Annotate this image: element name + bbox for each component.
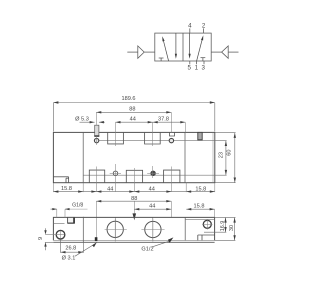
port 4 stub <box>189 28 191 33</box>
left mounting foot <box>53 177 68 183</box>
extension right edge down <box>214 183 216 192</box>
bottom right step <box>198 235 215 240</box>
dim G1/8 left <box>51 208 57 210</box>
svg-text:30: 30 <box>229 225 235 231</box>
right pilot to box wire <box>211 51 221 53</box>
svg-text:16.9: 16.9 <box>220 221 226 232</box>
centerline port1 x134.3 <box>133 168 135 192</box>
dia 3.1 hole (sectioned dark) <box>95 237 98 241</box>
right square: blocked port 3 T symbol <box>201 58 206 61</box>
chain arrowheads <box>53 190 58 192</box>
svg-text:60: 60 <box>227 149 233 155</box>
label dia 3.1 with leader <box>75 244 96 257</box>
valve box outline <box>155 33 211 61</box>
dim 37.8 <box>153 121 186 123</box>
dim 30 <box>215 218 236 241</box>
mounting hole slot (sectioned) <box>95 125 99 136</box>
svg-text:G1/8: G1/8 <box>72 203 83 209</box>
svg-text:37.8: 37.8 <box>158 117 169 123</box>
15.8 right extension <box>214 209 216 217</box>
dim 44 bottom view <box>134 208 171 210</box>
port 3 stub <box>203 61 205 64</box>
bottom port boss 1 <box>89 170 104 183</box>
svg-text:15.8: 15.8 <box>61 186 72 192</box>
port 5 stub <box>189 61 191 64</box>
port 2 stub <box>203 28 205 33</box>
svg-text:Ø 3.1: Ø 3.1 <box>62 256 76 262</box>
left square: blocked port 5 T symbol <box>159 58 164 61</box>
left pilot triangle <box>138 46 144 58</box>
extension left edge down <box>52 183 54 192</box>
face screw cross left <box>110 172 121 174</box>
svg-text:Ø 5.3: Ø 5.3 <box>75 117 89 123</box>
bottom dim chain of front view <box>53 191 214 193</box>
internal bottom plate line <box>83 174 215 176</box>
svg-text:26.8: 26.8 <box>65 246 76 252</box>
extension left cap down <box>82 183 84 192</box>
dim 44 top <box>116 121 153 123</box>
bottom port boss 2 <box>126 170 142 182</box>
G1/8 notch dark side <box>73 218 75 224</box>
centerline port3 x171.4 <box>170 113 172 133</box>
outline <box>53 217 214 240</box>
left pilot to box wire <box>144 51 155 53</box>
G1/8 pilot port notch <box>68 217 75 223</box>
label G1/2 with leader <box>152 241 170 247</box>
left foot hole circle <box>56 230 65 239</box>
svg-text:88: 88 <box>131 196 137 202</box>
dim 23 <box>215 141 227 176</box>
internal line left section <box>53 222 64 224</box>
port 1 stub <box>195 61 197 64</box>
left square: flow arrow 2-3 vertical down <box>175 33 177 54</box>
right top hole notch <box>170 132 175 136</box>
face screw circle right (filled) <box>151 171 156 176</box>
svg-text:4: 4 <box>188 23 192 30</box>
dim 9 (foot plate) <box>45 228 54 250</box>
left cap line bottom view <box>82 217 84 243</box>
left square: flow arrow 1-4 diagonal <box>163 39 169 61</box>
svg-text:44: 44 <box>149 186 155 192</box>
svg-text:44: 44 <box>107 186 113 192</box>
svg-text:9: 9 <box>38 237 44 240</box>
left pilot line <box>127 51 138 53</box>
left foot hole cross <box>45 234 64 236</box>
svg-text:23: 23 <box>218 152 224 158</box>
port1 marker arrow on bottom view top edge <box>133 213 137 220</box>
face screw cross right <box>147 172 159 174</box>
right cap pilot port notch <box>198 132 202 139</box>
top port recess 1 <box>108 132 124 144</box>
right pilot line <box>228 51 238 53</box>
centerline recess1 x115.5 <box>115 122 117 146</box>
extension for 37.8 right <box>184 122 186 132</box>
dim 88 top <box>96 111 171 113</box>
screw head circle under slot <box>94 138 98 142</box>
svg-text:15.8: 15.8 <box>194 203 205 209</box>
G1/8 extension lines <box>56 209 58 217</box>
body right edge inner line <box>212 132 214 182</box>
bottom edge lower line <box>53 241 214 243</box>
valve box divider <box>182 33 184 61</box>
port B cross <box>141 229 164 231</box>
right screw head circle <box>169 138 173 142</box>
right foot hole circle <box>203 220 211 228</box>
dim 88 bottom <box>96 200 171 202</box>
dim 26.8 <box>61 240 84 253</box>
right foot hole cross <box>202 223 212 225</box>
slot dark bottom rim <box>94 135 99 137</box>
right square: flow arrow 1-2 diagonal <box>197 39 203 61</box>
centerline port5 x96.4 <box>95 113 97 126</box>
right square: flow arrow 4-5 vertical down <box>189 33 191 54</box>
svg-text:15.8: 15.8 <box>195 186 206 192</box>
svg-text:44: 44 <box>130 117 136 123</box>
dim 60 <box>215 133 236 183</box>
dim 189.6 <box>53 103 214 132</box>
bottom edge upper line <box>53 239 214 241</box>
extension right cap down <box>185 183 187 192</box>
svg-text:189.6: 189.6 <box>122 96 136 102</box>
svg-text:88: 88 <box>129 107 135 113</box>
face screw circle left <box>113 171 118 176</box>
right cap line bottom view <box>184 217 186 240</box>
svg-text:2: 2 <box>202 23 206 30</box>
svg-text:44: 44 <box>149 203 155 209</box>
body outline <box>53 132 214 182</box>
bottom port boss 3 <box>164 170 180 183</box>
dim 16.9 <box>204 217 236 232</box>
dim 15.8 bottom view <box>186 208 214 210</box>
internal line right section <box>185 219 214 221</box>
svg-text:5: 5 <box>187 65 191 72</box>
main port circle B <box>145 221 161 237</box>
svg-text:3: 3 <box>201 65 205 72</box>
svg-text:G1/2: G1/2 <box>141 246 153 252</box>
port A cross <box>105 228 127 230</box>
main port circle A <box>107 221 123 237</box>
left end cap line <box>82 132 84 182</box>
internal top plate line <box>95 140 215 142</box>
svg-text:1: 1 <box>195 65 199 72</box>
right end cap line <box>184 132 186 182</box>
centerline recess2 x152.7 <box>152 122 154 146</box>
dim dia 5.3 <box>80 121 95 123</box>
right pilot triangle <box>222 46 229 58</box>
top port recess 2 <box>145 132 161 144</box>
